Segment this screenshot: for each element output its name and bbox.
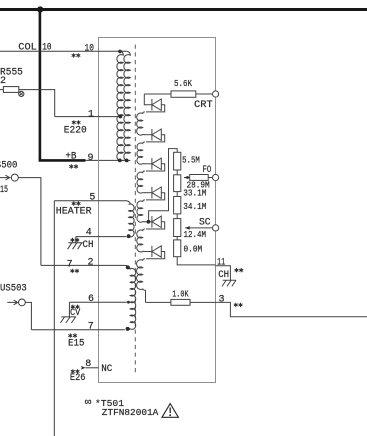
wire divider chain xyxy=(176,170,178,175)
HV winding section S1 xyxy=(137,112,145,135)
resistor 5.6K xyxy=(171,91,196,97)
resistor focus series xyxy=(190,175,209,181)
transformer core dashed line xyxy=(134,45,136,376)
wire 5.6K to CRT terminal xyxy=(196,93,213,95)
svg-text:5.5M: 5.5M xyxy=(182,156,200,166)
HV winding section S4 xyxy=(137,200,145,222)
svg-text:CH: CH xyxy=(218,270,229,281)
svg-text:4: 4 xyxy=(86,228,92,239)
svg-text:COL: COL xyxy=(18,42,37,53)
HV winding section S3 xyxy=(137,171,145,193)
wire D3 anode to winding xyxy=(146,164,165,171)
wire pin 11 to CH ground xyxy=(215,266,230,281)
asterisks marker pin3 xyxy=(234,303,243,307)
pin 8 arrow xyxy=(81,366,86,370)
svg-text:12.4M: 12.4M xyxy=(184,230,207,240)
HV diode D4 xyxy=(152,187,161,198)
transformer T501 outline box xyxy=(99,38,216,383)
node winding bottom pin 4 xyxy=(127,234,131,238)
svg-text:34.1M: 34.1M xyxy=(183,202,206,212)
svg-text:6: 6 xyxy=(88,294,94,305)
svg-text:E15: E15 xyxy=(68,339,85,350)
node winding top pin 2 xyxy=(126,265,130,269)
resistor R5 0.0M xyxy=(174,240,181,257)
resistor R4 12.4M xyxy=(174,219,181,237)
heater winding pin5-pin4 coil xyxy=(127,204,135,237)
heater supply line going off page xyxy=(53,201,55,436)
wire US500-15 to pins 7/2 xyxy=(18,178,125,266)
wire winding S3 to D4 cathode xyxy=(144,192,152,194)
wire winding S1 to D2 cathode xyxy=(144,134,152,136)
HV winding last section S6 xyxy=(137,259,146,303)
connector US500 arrow xyxy=(0,175,11,180)
svg-text:7: 7 xyxy=(88,322,94,333)
svg-text:2: 2 xyxy=(0,76,6,87)
wire to pin 1 xyxy=(55,116,121,118)
HV diode D1 xyxy=(152,99,161,110)
svg-text:9: 9 xyxy=(88,153,94,164)
asterisks marker E220 xyxy=(72,120,81,124)
svg-text:10: 10 xyxy=(42,42,51,53)
node divider tap junction xyxy=(147,220,151,224)
primary winding coil column 2 xyxy=(120,51,130,161)
svg-text:2: 2 xyxy=(88,258,94,269)
chassis ground CH pin4 xyxy=(68,237,83,250)
svg-text:US500: US500 xyxy=(0,161,17,172)
B+ bus vertical drop xyxy=(39,10,42,161)
wire D4 anode to winding xyxy=(146,193,165,200)
asterisks marker HEATER xyxy=(72,201,81,205)
asterisks marker pin4 CH xyxy=(71,238,80,242)
svg-text:8: 8 xyxy=(85,359,91,370)
wire COL to pin 10 xyxy=(0,50,120,52)
svg-text:CV: CV xyxy=(70,308,80,319)
screen wiper arrow wire xyxy=(185,227,212,229)
wire HV output to 5.6K xyxy=(144,93,171,95)
connector US500 terminal circle xyxy=(11,174,18,181)
svg-text:E26: E26 xyxy=(70,373,86,384)
focus wiper arrow xyxy=(184,177,190,179)
wire winding S2 to D3 cathode xyxy=(144,163,152,165)
wire divider tap to D5 cathode node xyxy=(149,149,178,222)
svg-text:NC: NC xyxy=(101,364,112,375)
wire D5 anode to winding xyxy=(146,222,165,229)
svg-text:10: 10 xyxy=(85,43,94,54)
asterisks marker +B xyxy=(69,164,78,168)
HV winding section S5 xyxy=(137,229,145,252)
asterisks marker pin2 xyxy=(70,269,79,273)
wire divider chain xyxy=(176,192,178,197)
svg-text:CH: CH xyxy=(83,240,94,251)
node pin 9 right xyxy=(125,159,129,163)
terminal FO xyxy=(213,174,219,180)
asterisks marker E15 xyxy=(68,333,77,337)
svg-text:0.0M: 0.0M xyxy=(184,245,203,255)
resistor R1 5.5M xyxy=(174,152,181,170)
svg-text:3: 3 xyxy=(219,294,225,305)
node winding bottom pin 7 xyxy=(126,327,130,331)
resistor R3 34.1M xyxy=(174,197,181,214)
asterisks marker pin10 xyxy=(72,53,81,57)
+B thick feed wire xyxy=(39,159,86,162)
HV diode D5 xyxy=(152,216,161,227)
asterisks marker CV xyxy=(71,305,80,309)
svg-text:E220: E220 xyxy=(64,125,87,136)
heater winding pin2-pin7 coil xyxy=(125,265,136,329)
svg-text:SC: SC xyxy=(199,218,211,229)
svg-text:5.6K: 5.6K xyxy=(174,79,192,89)
svg-text:1: 1 xyxy=(88,109,94,120)
svg-text:ZTFN82001A: ZTFN82001A xyxy=(102,407,159,418)
svg-text:5: 5 xyxy=(89,192,95,203)
HV diode D6 xyxy=(152,246,161,257)
svg-text:HEATER: HEATER xyxy=(56,207,92,218)
B+ bus top horizontal xyxy=(0,8,367,11)
warning triangle symbol xyxy=(162,404,178,418)
svg-text:∞: ∞ xyxy=(85,397,92,409)
svg-text:7: 7 xyxy=(67,259,73,270)
wire pin 5 heater feed xyxy=(54,201,130,205)
wire R555 to pin 1 corner xyxy=(19,90,55,117)
wire US503 to pin 7 xyxy=(25,302,125,329)
wire divider bottom to pin 11 xyxy=(177,257,215,265)
wire to FO terminal xyxy=(208,177,212,179)
wire D6 anode to last winding xyxy=(146,252,165,259)
wire divider chain xyxy=(176,237,178,240)
wire D2 anode to winding xyxy=(146,135,165,142)
wire into resistor R555 xyxy=(0,89,3,91)
node pin 9 left xyxy=(118,159,122,163)
svg-text:CRT: CRT xyxy=(194,100,213,111)
svg-text:US503: US503 xyxy=(0,284,27,295)
wire divider chain xyxy=(176,214,178,219)
svg-text:+B: +B xyxy=(65,151,76,162)
HV winding section S2 xyxy=(137,142,145,164)
terminal SC xyxy=(213,225,219,231)
wire winding S5 to D6 cathode xyxy=(144,251,152,253)
wire D1 anode to winding xyxy=(146,105,165,112)
connector US503 arrow xyxy=(7,300,17,305)
wire CRT output to diode D1 cathode xyxy=(144,94,152,105)
wire +B to pin 9 xyxy=(85,159,128,161)
wire pin 4 to CH ground xyxy=(76,236,126,238)
junction node on bus xyxy=(37,6,43,12)
wire pin 3 output xyxy=(190,302,367,316)
primary winding coil column 1 xyxy=(117,51,123,161)
resistor R555 xyxy=(3,87,18,93)
HV diode D3 xyxy=(152,158,161,169)
HV diode D2 xyxy=(152,129,161,140)
connector US503 terminal circle xyxy=(19,299,26,306)
wire pin 8 NC xyxy=(85,367,98,369)
wire CV ground to pin 6 xyxy=(69,301,128,303)
node pin 1 xyxy=(119,115,123,119)
fusible joint symbol at R555 xyxy=(19,91,24,96)
chassis ground CV xyxy=(60,302,76,323)
asterisks marker pin11 CH xyxy=(235,268,244,272)
svg-text:FO: FO xyxy=(203,165,212,176)
wire winding S4 to D5 cathode xyxy=(144,221,152,223)
terminal CRT xyxy=(213,91,219,97)
wire winding to 1.0K xyxy=(146,301,171,303)
resistor R2 33.1M xyxy=(174,175,181,192)
svg-text:11: 11 xyxy=(217,257,225,268)
node winding mid pin 6 xyxy=(127,301,130,304)
svg-text:1.0K: 1.0K xyxy=(172,289,189,299)
svg-text:33.1M: 33.1M xyxy=(183,189,206,199)
node pin 10 winding junction xyxy=(118,50,122,54)
chassis ground CH pin11 xyxy=(222,280,236,286)
asterisks marker E26 xyxy=(71,369,80,373)
resistor 1.0K xyxy=(171,299,190,305)
svg-text:15: 15 xyxy=(0,185,8,196)
